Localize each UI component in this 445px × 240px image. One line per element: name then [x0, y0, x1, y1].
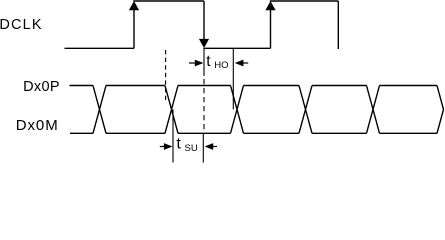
svg-text:HO: HO: [214, 60, 228, 71]
tSU value label: [177, 136, 198, 154]
guide line clock edge extension dashed middle: [203, 79, 205, 133]
wire data eye 1 bottom: [106, 132, 165, 134]
tHO value label: [206, 53, 228, 71]
arrowhead DCLK falling edge: [199, 39, 209, 48]
wire data eye 2 bottom: [178, 132, 231, 134]
wire DCLK rising edge 2: [270, 9, 272, 48]
tSU left arrow: [160, 143, 173, 150]
svg-text:Dx0M: Dx0M: [16, 117, 59, 134]
node data crossing X3: [231, 86, 244, 134]
svg-text:DCLK: DCLK: [0, 17, 43, 33]
wire data eye 5 top: [380, 85, 438, 87]
guide dashed line at data transition start: [165, 50, 167, 102]
wire data eye 1 top: [106, 85, 165, 87]
tHO left arrow: [189, 60, 203, 67]
svg-text:Dx0P: Dx0P: [23, 79, 60, 95]
wire DCLK low segment 2: [204, 47, 271, 49]
wire data eye 5 bottom: [380, 132, 438, 134]
guide line tHO right boundary: [232, 48, 234, 109]
node data crossing X2: [165, 86, 178, 134]
wire DCLK falling edge: [203, 1, 205, 40]
arrowhead DCLK rising edge 1: [129, 1, 139, 10]
wire DCLK final falling segment: [337, 1, 339, 49]
wire data eye 2 top: [178, 85, 231, 87]
svg-text:SU: SU: [185, 143, 198, 154]
guide line clock edge extension solid lower: [202, 133, 204, 162]
wire data eye 3 bottom: [244, 132, 300, 134]
node data final convergence: [437, 86, 444, 134]
guide line clock edge extension solid upper: [203, 48, 205, 76]
wire DCLK high segment 2: [270, 0, 339, 2]
wire data eye 4 top: [312, 85, 367, 87]
wire DCLK low segment 1: [65, 47, 135, 49]
svg-text:t: t: [177, 136, 182, 153]
svg-text:t: t: [206, 53, 211, 70]
wire data eye 4 bottom: [312, 132, 367, 134]
node data crossing X1: [93, 86, 106, 134]
wire data top lead-in: [70, 85, 94, 87]
guide line tSU left boundary: [172, 109, 174, 162]
tHO right arrow: [235, 60, 248, 67]
tSU right arrow: [205, 143, 217, 150]
wire DCLK rising edge 1: [133, 9, 135, 48]
wire data bottom lead-in: [70, 132, 93, 134]
arrowhead DCLK rising edge 2: [265, 1, 275, 10]
wire DCLK high segment 1: [133, 0, 204, 2]
node data crossing X4: [299, 86, 312, 134]
wire data eye 3 top: [244, 85, 300, 87]
node data crossing X5: [367, 86, 380, 134]
